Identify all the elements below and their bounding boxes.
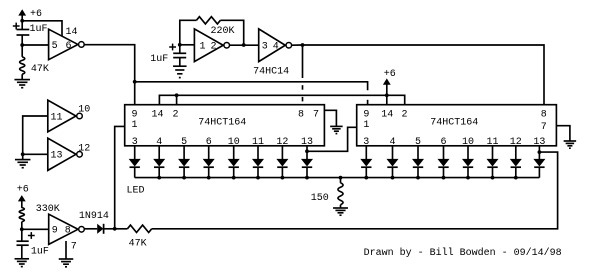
pin 14 label (U1A Vcc) (66, 27, 78, 38)
74HC14 label (253, 66, 289, 77)
resistor R3 330K (19, 204, 60, 230)
wire clock to U3 pin 8 (303, 45, 545, 105)
junction (reset node) (133, 80, 137, 84)
junction (rail / R4) (339, 176, 343, 180)
LED D11 (U3 pin) (413, 146, 423, 178)
LED rail wire (135, 177, 540, 179)
LED label (127, 185, 145, 196)
svg-text:3: 3 (262, 42, 268, 53)
svg-text:8: 8 (298, 109, 304, 120)
LED D16 (U3 pin 13) (534, 146, 544, 178)
svg-text:47K: 47K (129, 238, 147, 249)
+6 supply (top left) (18, 9, 42, 21)
ground (U2 pin 7) (324, 110, 342, 133)
svg-text:7: 7 (313, 109, 319, 120)
resistor R4 150 (311, 178, 343, 208)
LED D3 (U2 pin) (179, 146, 189, 178)
ground (U3 pin 7) (556, 126, 576, 149)
svg-text:2: 2 (173, 109, 179, 120)
ground (U1D/U1E inputs) (15, 160, 31, 168)
+6 supply (shift registers) (383, 69, 396, 95)
inverter U1B (pins 1,2) (194, 29, 229, 62)
wire +6 to U1A pin 14 (22, 21, 62, 36)
LED D10 (U3 pin) (387, 146, 397, 178)
wire U1D/U1E inputs tied (23, 116, 48, 160)
junction (data node) (113, 227, 117, 231)
rail junction D7 (281, 176, 285, 180)
rail junction D2 (157, 176, 161, 180)
svg-text:2: 2 (402, 109, 408, 120)
svg-text:1: 1 (132, 120, 138, 131)
inverter U1D (pins 11,10) (48, 100, 91, 132)
wire U1C output (292, 44, 303, 46)
capacitor C2 1uF (150, 44, 186, 67)
svg-text:10: 10 (78, 105, 90, 116)
LED D13 (U3 pin) (463, 146, 473, 178)
LED D6 (U2 pin) (253, 146, 263, 178)
junction (clock node) (301, 43, 305, 47)
junction (U1B input) (178, 43, 182, 47)
junction (U2 pin 2) (175, 93, 179, 97)
ground (C2) (173, 66, 187, 77)
svg-text:+6: +6 (17, 185, 29, 196)
svg-text:2: 2 (211, 42, 217, 53)
LED D9 (U3 pin) (361, 146, 371, 178)
pin 7 label (U1F gnd) (71, 242, 77, 253)
svg-text:1uF: 1uF (30, 24, 48, 35)
LED D7 (U2 pin) (277, 146, 287, 178)
rail junction D14 (491, 176, 495, 180)
LED D5 (U2 pin) (229, 146, 239, 178)
svg-text:150: 150 (311, 193, 329, 204)
rail junction D12 (442, 176, 446, 180)
wire reset line to U3 pin 9 (135, 82, 368, 105)
svg-text:1uF: 1uF (31, 246, 49, 257)
capacitor C3 1uF (17, 229, 49, 258)
svg-text:6: 6 (66, 41, 72, 52)
wire clock to U2 pin 8 (dashed crossover) (302, 45, 304, 101)
rail junction D4 (207, 176, 211, 180)
svg-text:13: 13 (51, 151, 63, 162)
svg-text:74HC14: 74HC14 (253, 66, 289, 77)
rail junction D10 (391, 176, 395, 180)
svg-text:74HCT164: 74HCT164 (198, 117, 246, 128)
wire +6 rail to pins 14,2 (159, 95, 404, 104)
svg-text:1uF: 1uF (150, 54, 168, 65)
rail junction D9 (364, 176, 368, 180)
rail junction D11 (416, 176, 420, 180)
ground (U1F pin 7) (59, 259, 74, 267)
diode D17 1N914 (79, 211, 109, 234)
wire U3 pin 13 feedback to 47K (152, 152, 558, 229)
svg-text:14: 14 (152, 109, 164, 120)
svg-text:220K: 220K (211, 26, 235, 37)
junction (osc node) (242, 43, 246, 47)
svg-text:4: 4 (273, 42, 279, 53)
svg-text:Drawn by - Bill Bowden - 09/14: Drawn by - Bill Bowden - 09/14/98 (364, 247, 562, 259)
svg-text:1: 1 (200, 42, 206, 53)
svg-text:1N914: 1N914 (79, 211, 109, 222)
svg-text:1: 1 (363, 120, 369, 131)
svg-text:47K: 47K (31, 64, 49, 75)
svg-text:12: 12 (78, 144, 90, 155)
wire U1F pin 7 to ground (65, 241, 67, 259)
rail junction D15 (514, 176, 518, 180)
ground (C3) (15, 259, 29, 267)
wire U2 pin 13 to U3 pin 1 (307, 127, 357, 151)
svg-text:7: 7 (71, 242, 77, 253)
svg-text:+6: +6 (384, 69, 396, 80)
rail junction D8 (305, 176, 309, 180)
LED D15 (U3 pin) (511, 146, 521, 178)
capacitor C1 1uF (13, 21, 48, 45)
LED D1 (U2 pin) (130, 146, 140, 178)
svg-text:7: 7 (541, 122, 547, 133)
svg-text:8: 8 (65, 226, 71, 237)
junction (tied inputs) (21, 152, 25, 156)
svg-text:11: 11 (51, 113, 63, 124)
IC U3 74HCT164 (357, 105, 557, 149)
junction (C1 / U1A input / R1) (20, 43, 24, 47)
junction (+6 / U3 pin 14) (385, 93, 389, 97)
svg-text:+6: +6 (30, 9, 42, 20)
resistor R1 47K (20, 45, 49, 80)
svg-text:14: 14 (381, 109, 393, 120)
junction (U3 pin 13 feedback) (538, 150, 542, 154)
svg-text:9: 9 (132, 109, 138, 120)
credit text (364, 247, 562, 259)
junction (supply / C1) (20, 19, 24, 23)
wire C2 node to U1B (180, 44, 195, 46)
svg-text:LED: LED (127, 185, 145, 196)
wire U1A output to U2 pin 9 (84, 45, 134, 105)
rail junction D13 (466, 176, 470, 180)
ground (R4) (333, 208, 348, 215)
LED D8 (U2 pin) (302, 146, 312, 178)
LED D4 (U2 pin) (204, 146, 214, 178)
rail junction D5 (232, 176, 236, 180)
IC U2 74HCT164 (125, 105, 325, 149)
inverter U1A (pins 5,6) (49, 29, 85, 60)
svg-text:74HCT164: 74HCT164 (430, 117, 478, 128)
wire diode to data node (104, 228, 115, 230)
wire U1F output to diode (84, 228, 97, 230)
LED D2 (U2 pin) (154, 146, 164, 178)
junction (U2 pin 13 out) (305, 149, 309, 153)
junction (U1F input) (20, 227, 24, 231)
wire U2 pin 1 to data node (115, 126, 125, 228)
svg-text:9: 9 (52, 226, 58, 237)
LED D14 (U3 pin) (487, 146, 497, 178)
wire C1 to U1A pin 5 (22, 44, 48, 46)
svg-text:5: 5 (52, 41, 58, 52)
svg-text:8: 8 (541, 109, 547, 120)
svg-text:9: 9 (363, 109, 369, 120)
LED D12 (U3 pin) (438, 146, 448, 178)
wire R3 node to U1F pin 9 (22, 228, 49, 230)
inverter U1F (pins 9,8) (49, 214, 85, 244)
inverter U1E (pins 13,12) (48, 138, 91, 170)
svg-text:330K: 330K (36, 204, 60, 215)
resistor R2 220K (feedback) (180, 17, 244, 45)
inverter U1C (pins 3,4) (259, 29, 292, 62)
rail junction D3 (182, 176, 186, 180)
ground (R1) (14, 80, 30, 88)
wire U1B out to U1C in (230, 44, 259, 46)
resistor R5 47K (115, 225, 152, 249)
svg-text:14: 14 (66, 27, 78, 38)
rail junction D6 (256, 176, 260, 180)
+6 supply (bottom left) (17, 185, 29, 208)
